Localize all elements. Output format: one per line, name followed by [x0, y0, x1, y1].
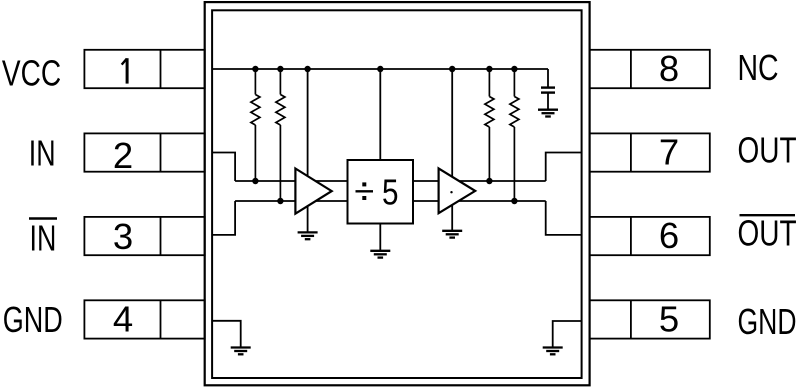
svg-text:IN: IN [30, 217, 57, 258]
svg-text:OUT: OUT [738, 213, 797, 254]
wire top signal line [235, 180, 546, 182]
wire pin5 GND [553, 321, 582, 348]
wire buffer A2 supply/ground [451, 69, 453, 231]
buffer amplifier A2 [439, 168, 476, 213]
pin 5 box [590, 300, 710, 338]
junction dot R4/bottom signal [511, 198, 517, 204]
junction dot R2/bottom signal [277, 198, 283, 204]
svg-text:3: 3 [113, 216, 133, 257]
svg-text:4: 4 [113, 298, 133, 339]
wire pin6 OUT-bar exit [546, 201, 582, 235]
pin 4 box [84, 300, 204, 338]
junction dot VCC/R3 [486, 66, 492, 72]
svg-text:GND: GND [3, 299, 63, 340]
junction dot VCC/R2 [277, 66, 283, 72]
IC package outer box [205, 2, 590, 385]
svg-text:8: 8 [659, 48, 679, 89]
ground at pin5 [543, 348, 563, 355]
junction dot VCC/R1 [252, 66, 258, 72]
pin 8 box [590, 50, 710, 88]
label IN-bar [29, 217, 57, 258]
wire pin4 GND [212, 321, 241, 348]
artifact dot inside buffer A2 [450, 191, 452, 193]
svg-text:OUT: OUT [738, 129, 797, 170]
junction dot R1/top signal [252, 178, 258, 184]
ground at pin4 [231, 348, 251, 355]
wire divider ground lead [379, 224, 381, 251]
capacitor C1 [541, 69, 555, 110]
pin number 1 [122, 58, 127, 83]
svg-text:6: 6 [659, 215, 679, 256]
resistor R3 [485, 69, 494, 181]
junction dot VCC/A2 supply [449, 66, 455, 72]
divider label ÷5 [356, 172, 399, 213]
pin 2 box [84, 133, 204, 171]
wire divider supply [379, 69, 381, 160]
pin 1 box [84, 50, 204, 88]
svg-text:7: 7 [659, 131, 679, 172]
resistor R4 [510, 69, 519, 201]
ground below buffer A1 [298, 232, 318, 239]
wire buffer A1 supply/ground [307, 69, 309, 232]
junction dot VCC/divider supply [377, 66, 383, 72]
resistor R2 [276, 69, 285, 201]
ground below capacitor [538, 110, 558, 117]
divider block U1 [348, 160, 414, 224]
wire bottom signal line [235, 200, 546, 202]
VCC rail wire [212, 68, 548, 70]
pin 3 box [84, 217, 204, 255]
ground below divider [370, 251, 390, 258]
svg-text:VCC: VCC [2, 52, 61, 93]
svg-text:NC: NC [738, 47, 779, 88]
label OUT-bar [738, 213, 797, 254]
ground below buffer A2 [442, 231, 462, 238]
svg-text:2: 2 [113, 135, 133, 176]
svg-text:IN: IN [29, 132, 56, 173]
svg-text:5: 5 [659, 298, 679, 339]
buffer amplifier A1 [295, 169, 331, 214]
wire pin7 OUT exit [546, 153, 582, 182]
junction dot R3/top signal [486, 178, 492, 184]
wire pin2 IN entry [212, 153, 235, 182]
junction dot VCC/R4 [511, 66, 517, 72]
svg-text:GND: GND [738, 301, 797, 342]
IC package inner box [212, 10, 581, 378]
pin 6 box [590, 217, 710, 255]
pin 7 box [590, 133, 710, 171]
svg-text:5: 5 [382, 172, 399, 213]
wire pin3 IN-bar entry [212, 201, 235, 235]
resistor R1 [251, 69, 260, 181]
junction dot VCC/A1 supply [304, 66, 310, 72]
